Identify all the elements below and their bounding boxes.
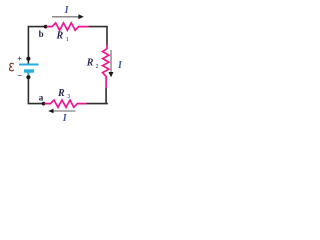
svg-text:+: + (17, 53, 22, 63)
svg-text:a: a (39, 92, 44, 102)
battery emf label epsilon (script) (9, 63, 13, 71)
svg-text:R: R (57, 88, 65, 99)
svg-text:I: I (117, 60, 123, 71)
wire bottom-right: from R2 end down to corner then left to R3 end (86, 88, 107, 104)
battery bottom plate (short, thick, -) (24, 69, 34, 72)
svg-text:R: R (86, 57, 94, 68)
resistor R1 zigzag (top) (47, 23, 89, 30)
svg-text:I: I (62, 113, 68, 124)
svg-text:−: − (17, 70, 22, 80)
svg-text:R: R (56, 31, 64, 42)
resistor R2 zigzag (right) (103, 45, 109, 88)
svg-text:I: I (64, 5, 70, 16)
resistor R3 zigzag (bottom) (45, 100, 87, 107)
current arrow top (shaft) (52, 16, 79, 18)
battery stem to minus terminal (27, 71, 29, 77)
current arrow right (head) (109, 72, 114, 77)
svg-text:1: 1 (66, 37, 69, 43)
current arrow right (shaft) (110, 50, 112, 73)
current arrow bottom (head) (48, 109, 53, 114)
current arrow top (head) (78, 14, 83, 19)
battery - terminal dot (26, 75, 30, 79)
battery top plate (long, +) (19, 64, 39, 66)
svg-text:b: b (39, 29, 44, 39)
battery + terminal dot (26, 57, 30, 61)
node b dot (44, 25, 48, 29)
node a dot (42, 102, 46, 106)
wire top-right: from R1 end to top-right corner down to R2 (89, 27, 108, 46)
svg-text:2: 2 (96, 64, 99, 70)
wire top-left: left rail upper + top rail to node b (28, 27, 47, 65)
current arrow bottom (shaft) (53, 110, 76, 112)
wire bottom-left: from battery minus down and right to node a (28, 77, 44, 104)
svg-text:3: 3 (67, 94, 70, 100)
